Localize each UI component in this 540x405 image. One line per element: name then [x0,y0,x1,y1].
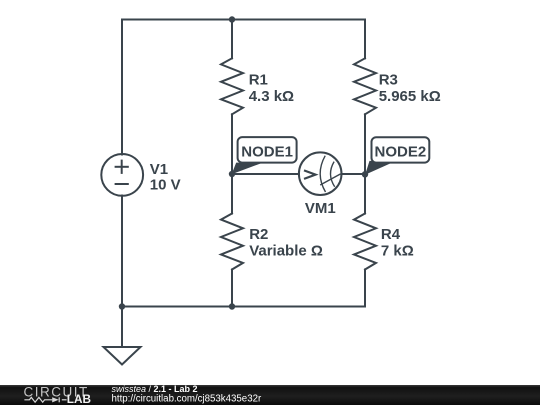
voltmeter VM1 internal glyph [304,156,341,192]
resistor R1 zigzag [221,58,243,114]
svg-text:R3: R3 [379,71,398,88]
svg-text:VM1: VM1 [305,200,336,217]
svg-text:R4: R4 [381,226,401,243]
wire left vertical lower [121,196,123,307]
node NODE2 flag pointer [365,161,396,175]
svg-text:4.3 kΩ: 4.3 kΩ [249,88,294,105]
node junction top [229,16,235,22]
wire bottom horizontal [122,306,365,308]
wire middle vertical between R1 and R2 [231,114,233,213]
node junction bottom middle [229,303,235,309]
svg-text:LAB: LAB [67,392,91,405]
node NODE2 junction [362,171,368,177]
svg-text:http://circuitlab.com/cj853k43: http://circuitlab.com/cj853k435e32r [112,394,262,405]
wire ground stem [121,307,123,348]
node NODE1 label box [238,137,297,163]
voltage source V1 circle [101,154,143,196]
svg-text:R2: R2 [249,226,268,243]
node NODE2 label box [372,137,430,162]
resistor R4 zigzag [354,214,376,270]
wire VM1 right lead [342,173,366,175]
wire middle vertical top (to R1) [231,20,233,59]
svg-text:swisstea / 2.1 - Lab 2: swisstea / 2.1 - Lab 2 [112,384,198,394]
voltmeter VM1 circle [299,152,342,195]
ground symbol triangle [104,347,141,365]
resistor R3 zigzag [354,58,376,114]
logo squiggle and diode [24,397,66,402]
resistor R2 zigzag [221,214,243,270]
svg-text:5.965 kΩ: 5.965 kΩ [379,88,441,105]
wire left vertical upper [121,20,123,155]
svg-text:NODE1: NODE1 [241,143,293,160]
svg-text:7 kΩ: 7 kΩ [381,242,414,259]
wire middle vertical bottom (R2 to bottom) [231,270,233,307]
svg-text:10 V: 10 V [150,177,181,194]
wire right vertical top (to R3) [364,20,366,59]
wire VM1 left lead [232,173,299,175]
wire right vertical between R3 and R4 [364,114,366,213]
voltage source V1 plus sign [115,160,129,184]
node NODE1 junction [229,171,235,177]
voltage source V1 minus sign [115,183,129,185]
svg-text:NODE2: NODE2 [375,143,427,160]
svg-text:Variable Ω: Variable Ω [249,242,323,259]
wire right vertical bottom (R4 to bottom) [364,270,366,307]
svg-text:R1: R1 [249,71,268,88]
node NODE1 flag pointer [232,163,263,175]
node junction bottom left [119,303,125,309]
wire top horizontal [122,19,365,21]
